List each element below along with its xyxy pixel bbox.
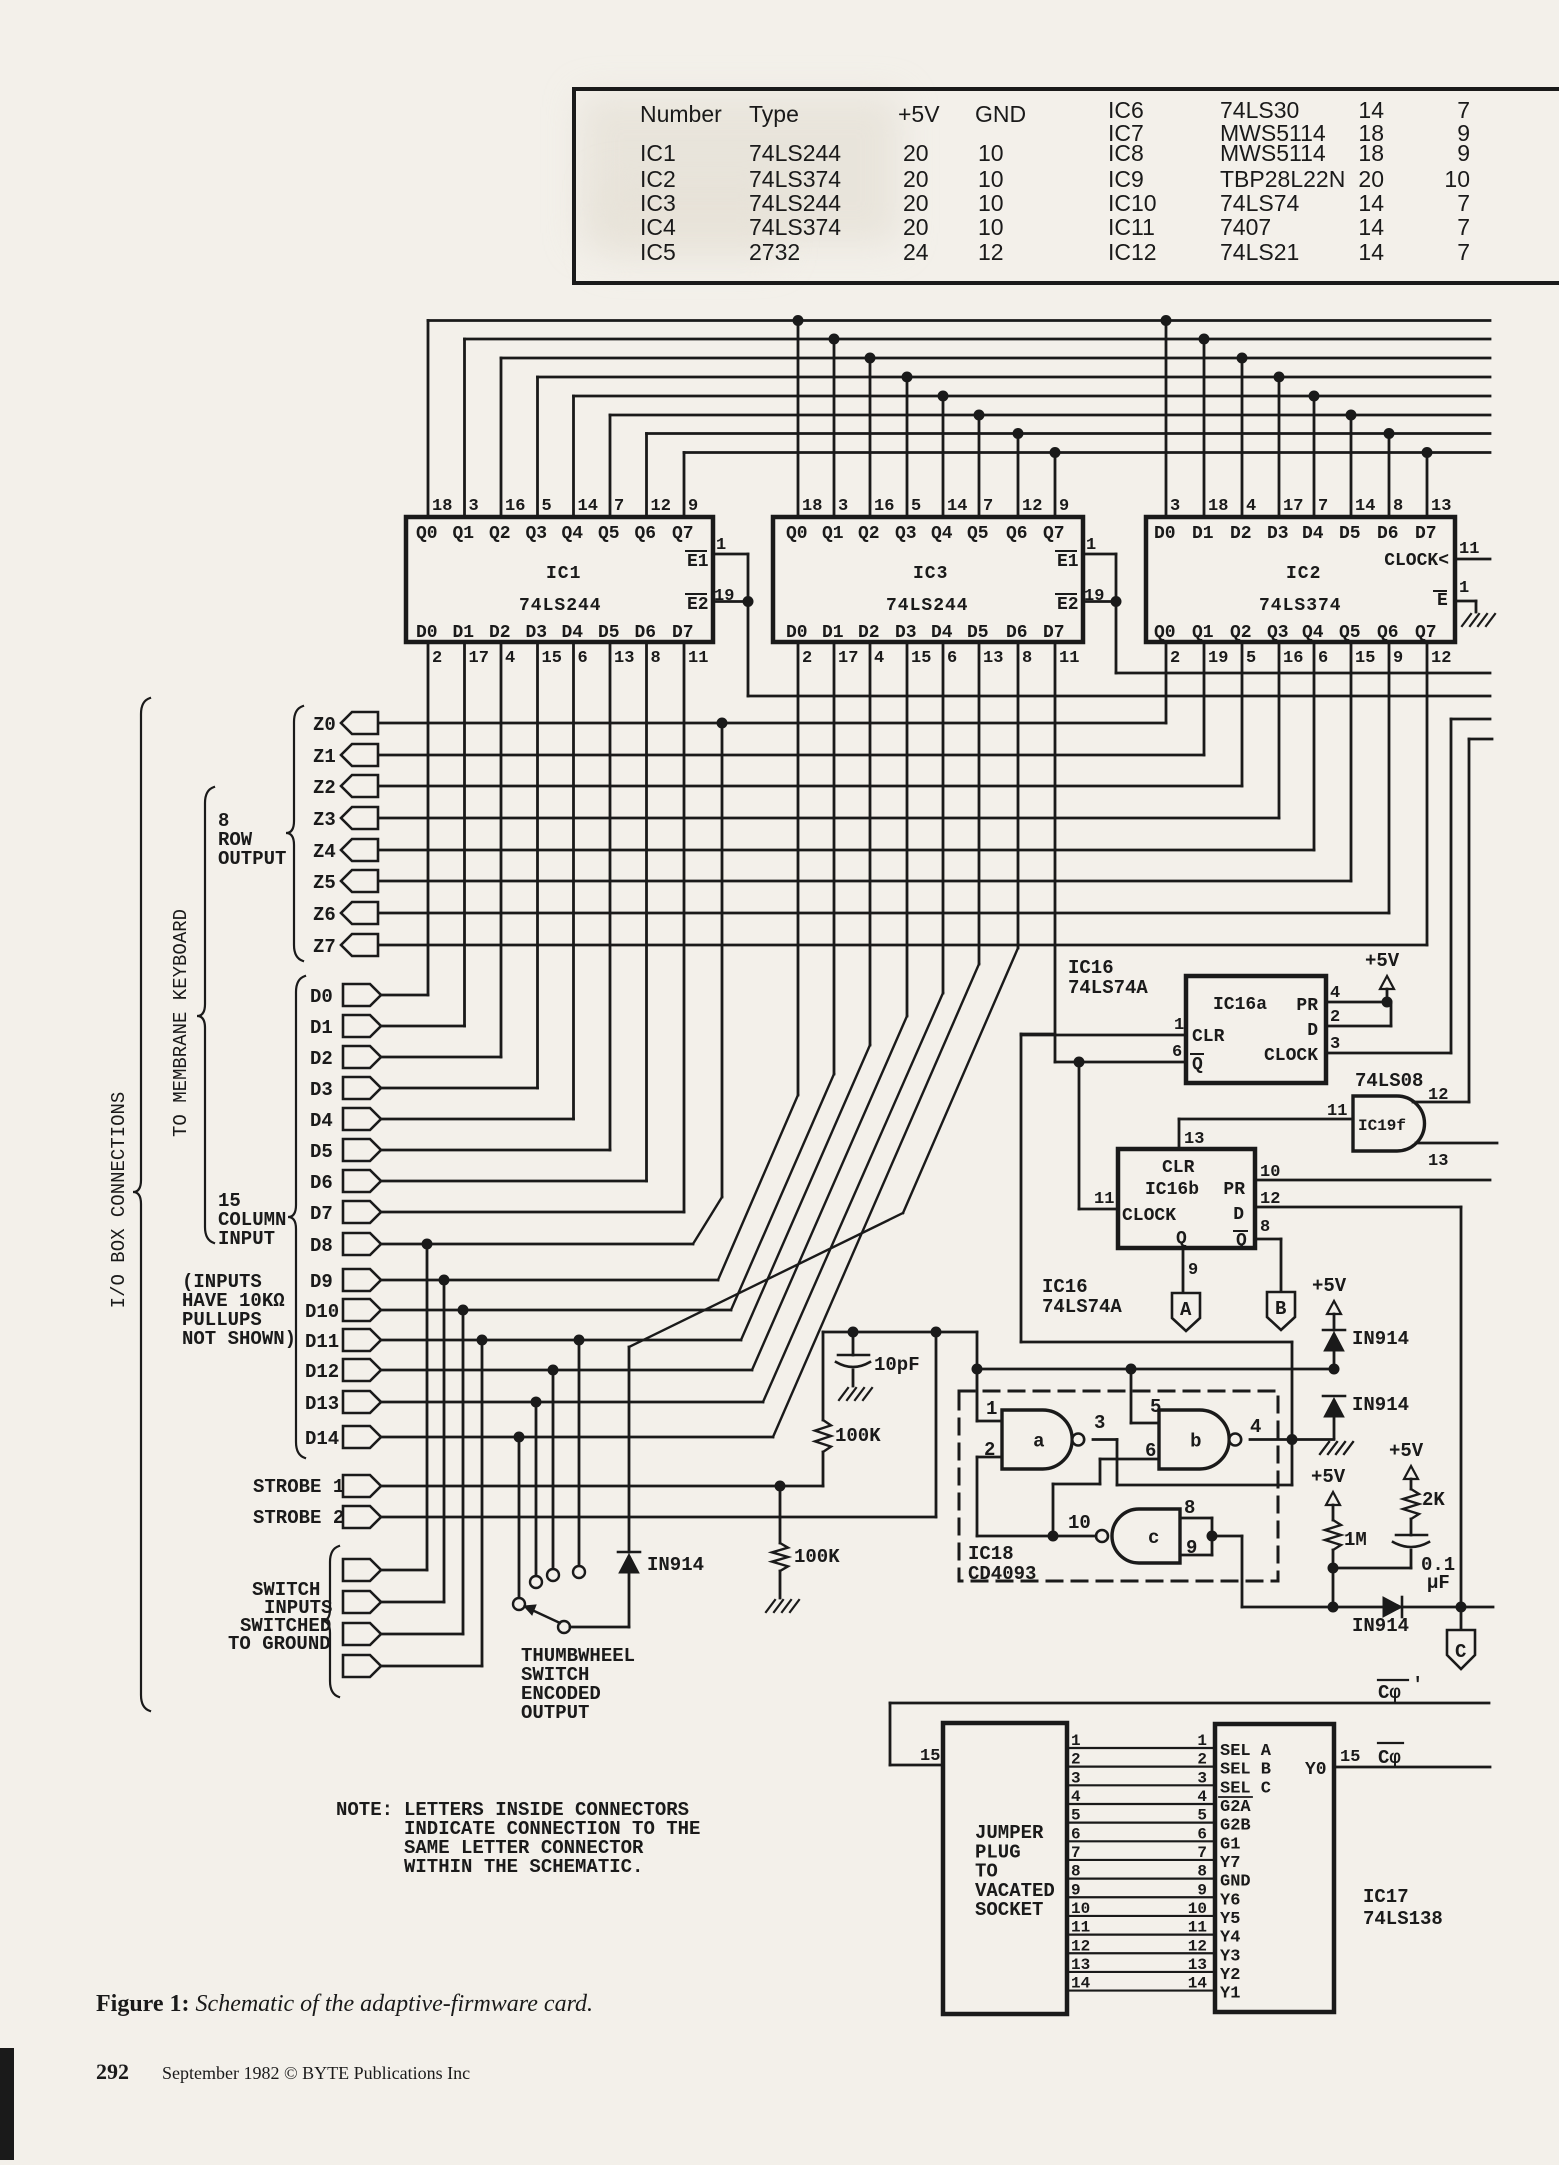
svg-text:Y0: Y0	[1305, 1760, 1327, 1780]
svg-text:D4: D4	[931, 623, 953, 643]
svg-text:D9: D9	[310, 1271, 333, 1293]
svg-text:2K: 2K	[1422, 1489, 1445, 1511]
svg-text:OUTPUT: OUTPUT	[218, 848, 286, 870]
svg-text:18: 18	[802, 497, 822, 516]
svg-text:8: 8	[1184, 1497, 1195, 1519]
svg-text:Y5: Y5	[1220, 1910, 1240, 1929]
svg-text:CLOCK: CLOCK	[1122, 1206, 1176, 1226]
svg-text:4: 4	[874, 649, 884, 668]
svg-text:5: 5	[911, 497, 921, 516]
svg-text:D2: D2	[489, 623, 511, 643]
svg-text:E: E	[1437, 591, 1448, 611]
svg-text:9: 9	[1071, 1881, 1081, 1899]
svg-text:2: 2	[1071, 1751, 1081, 1769]
svg-text:14: 14	[947, 497, 967, 516]
svg-text:10: 10	[978, 166, 1004, 192]
svg-text:SEL A: SEL A	[1220, 1742, 1272, 1761]
svg-text:5: 5	[1071, 1807, 1081, 1825]
svg-text:11: 11	[1459, 540, 1479, 559]
svg-text:G1: G1	[1220, 1835, 1240, 1854]
svg-text:E1: E1	[1057, 552, 1079, 572]
svg-text:D0: D0	[1154, 524, 1176, 544]
svg-text:IC2: IC2	[1286, 564, 1321, 584]
svg-text:100K: 100K	[835, 1425, 881, 1447]
svg-text:17: 17	[1283, 497, 1303, 516]
svg-text:D2: D2	[858, 623, 880, 643]
svg-text:Q3: Q3	[895, 524, 917, 544]
svg-text:1M: 1M	[1344, 1529, 1367, 1551]
svg-text:3: 3	[1170, 497, 1180, 516]
svg-text:IN914: IN914	[1352, 1328, 1409, 1350]
svg-text:Z0: Z0	[313, 714, 336, 736]
svg-text:14: 14	[1358, 214, 1384, 240]
svg-text:September 1982 © BYTE Publicat: September 1982 © BYTE Publications Inc	[162, 2063, 470, 2083]
svg-text:IC9: IC9	[1108, 166, 1144, 192]
svg-text:8: 8	[1022, 649, 1032, 668]
svg-text:12: 12	[1431, 649, 1451, 668]
svg-text:D4: D4	[310, 1110, 333, 1132]
svg-text:Z2: Z2	[313, 777, 336, 799]
svg-text:Y7: Y7	[1220, 1854, 1240, 1873]
svg-text:14: 14	[1071, 1975, 1091, 1993]
svg-text:Q3: Q3	[1267, 623, 1289, 643]
svg-text:1: 1	[1459, 579, 1469, 598]
svg-text:6: 6	[1071, 1825, 1081, 1843]
svg-text:D2: D2	[310, 1048, 333, 1070]
svg-text:9: 9	[1457, 140, 1470, 166]
svg-text:Z7: Z7	[313, 936, 336, 958]
svg-text:IC8: IC8	[1108, 140, 1144, 166]
svg-text:Z1: Z1	[313, 746, 336, 768]
svg-text:24: 24	[903, 239, 929, 265]
svg-text:Q4: Q4	[931, 524, 953, 544]
svg-text:5: 5	[1197, 1807, 1207, 1825]
svg-text:D14: D14	[305, 1428, 339, 1450]
svg-text:D13: D13	[305, 1393, 339, 1415]
svg-text:Number: Number	[640, 101, 722, 127]
svg-text:4: 4	[1330, 984, 1340, 1003]
svg-text:74LS74A: 74LS74A	[1042, 1296, 1122, 1318]
svg-text:6: 6	[578, 649, 588, 668]
svg-text:IC17: IC17	[1363, 1886, 1409, 1908]
svg-text:20: 20	[903, 214, 929, 240]
svg-text:D5: D5	[598, 623, 620, 643]
svg-text:14: 14	[1188, 1975, 1208, 1993]
svg-text:MWS5114: MWS5114	[1220, 140, 1326, 166]
svg-text:D4: D4	[562, 623, 584, 643]
svg-text:10pF: 10pF	[874, 1354, 920, 1376]
svg-text:IC11: IC11	[1108, 214, 1155, 240]
svg-text:PR: PR	[1296, 996, 1318, 1016]
svg-text:Q1: Q1	[822, 524, 844, 544]
svg-text:10: 10	[1444, 166, 1470, 192]
svg-text:11: 11	[1188, 1919, 1207, 1937]
svg-text:Q4: Q4	[1302, 623, 1324, 643]
svg-text:Cφ: Cφ	[1378, 1747, 1401, 1769]
svg-text:7: 7	[1318, 497, 1328, 516]
svg-text:13: 13	[614, 649, 634, 668]
svg-text:IC16b: IC16b	[1145, 1180, 1199, 1200]
svg-text:E2: E2	[1057, 595, 1079, 615]
svg-text:TO GROUND: TO GROUND	[228, 1633, 331, 1655]
svg-text:5: 5	[542, 497, 552, 516]
svg-text:Q3: Q3	[526, 524, 548, 544]
svg-text:14: 14	[1358, 190, 1384, 216]
svg-text:7: 7	[1197, 1844, 1207, 1862]
svg-text:Q0: Q0	[1154, 623, 1176, 643]
svg-text:2732: 2732	[749, 239, 800, 265]
svg-text:+5V: +5V	[1311, 1466, 1346, 1488]
svg-text:5: 5	[1246, 649, 1256, 668]
svg-text:74LS244: 74LS244	[749, 140, 841, 166]
svg-text:IC5: IC5	[640, 239, 676, 265]
svg-text:17: 17	[838, 649, 858, 668]
svg-text:+5V: +5V	[898, 101, 940, 127]
svg-text:c: c	[1148, 1527, 1159, 1549]
svg-text:7: 7	[614, 497, 624, 516]
svg-text:IC12: IC12	[1108, 239, 1157, 265]
svg-text:7: 7	[1457, 239, 1470, 265]
svg-text:INPUT: INPUT	[218, 1228, 275, 1250]
svg-text:17: 17	[469, 649, 489, 668]
svg-text:7: 7	[1457, 190, 1470, 216]
svg-text:Z5: Z5	[313, 872, 336, 894]
svg-text:8: 8	[1393, 497, 1403, 516]
svg-text:GND: GND	[975, 101, 1026, 127]
svg-text:7: 7	[1071, 1844, 1081, 1862]
svg-text:1: 1	[716, 536, 726, 555]
svg-text:STROBE 2: STROBE 2	[253, 1507, 344, 1529]
svg-text:E2: E2	[687, 595, 709, 615]
svg-text:Q: Q	[1192, 1055, 1203, 1075]
svg-text:15: 15	[911, 649, 931, 668]
svg-text:8: 8	[1071, 1863, 1081, 1881]
svg-text:4: 4	[1246, 497, 1256, 516]
svg-text:WITHIN THE SCHEMATIC.: WITHIN THE SCHEMATIC.	[404, 1856, 643, 1878]
svg-text:D: D	[1307, 1021, 1318, 1041]
svg-text:12: 12	[1428, 1086, 1448, 1105]
svg-text:4: 4	[1071, 1788, 1081, 1806]
svg-text:4: 4	[1197, 1788, 1207, 1806]
svg-text:7407: 7407	[1220, 214, 1271, 240]
svg-text:Q2: Q2	[1230, 623, 1252, 643]
svg-text:D3: D3	[526, 623, 548, 643]
svg-text:20: 20	[903, 166, 929, 192]
svg-text:D3: D3	[1267, 524, 1289, 544]
svg-text:18: 18	[432, 497, 452, 516]
svg-text:74LS244: 74LS244	[749, 190, 841, 216]
svg-text:3: 3	[1330, 1035, 1340, 1054]
svg-text:10: 10	[978, 214, 1004, 240]
svg-text:IN914: IN914	[647, 1554, 704, 1576]
svg-text:Z6: Z6	[313, 904, 336, 926]
svg-text:13: 13	[983, 649, 1003, 668]
svg-text:IC4: IC4	[640, 214, 676, 240]
svg-text:PR: PR	[1223, 1180, 1245, 1200]
svg-text:3: 3	[1094, 1412, 1105, 1434]
svg-text:15: 15	[1340, 1748, 1360, 1767]
svg-text:Figure 1: Schematic of the ada: Figure 1: Schematic of the adaptive-firm…	[96, 1991, 593, 2017]
svg-text:74LS74: 74LS74	[1220, 190, 1300, 216]
svg-text:I/O BOX CONNECTIONS: I/O BOX CONNECTIONS	[108, 1092, 130, 1309]
svg-text:STROBE 1: STROBE 1	[253, 1476, 344, 1498]
svg-text:D1: D1	[453, 623, 475, 643]
svg-text:D7: D7	[672, 623, 694, 643]
svg-text:Q0: Q0	[786, 524, 808, 544]
svg-text:74LS21: 74LS21	[1220, 239, 1299, 265]
svg-text:NOTE:: NOTE:	[336, 1799, 393, 1821]
svg-text:13: 13	[1071, 1956, 1090, 1974]
svg-text:IC1: IC1	[546, 564, 581, 584]
svg-text:Z3: Z3	[313, 809, 336, 831]
svg-text:12: 12	[1071, 1937, 1090, 1955]
svg-text:Y3: Y3	[1220, 1947, 1240, 1966]
svg-text:D6: D6	[1006, 623, 1028, 643]
svg-text:16: 16	[505, 497, 525, 516]
svg-text:16: 16	[874, 497, 894, 516]
svg-text:Q1: Q1	[453, 524, 475, 544]
svg-text:10: 10	[978, 190, 1004, 216]
svg-text:74LS138: 74LS138	[1363, 1908, 1443, 1930]
svg-text:15: 15	[920, 1747, 940, 1766]
svg-text:20: 20	[903, 190, 929, 216]
svg-text:IC16: IC16	[1068, 957, 1114, 979]
svg-text:74LS74A: 74LS74A	[1068, 977, 1148, 999]
svg-text:2: 2	[802, 649, 812, 668]
svg-text:19: 19	[1084, 587, 1104, 606]
svg-text:4: 4	[505, 649, 515, 668]
svg-text:E1: E1	[687, 552, 709, 572]
svg-text:18: 18	[1358, 140, 1384, 166]
svg-text:G2A: G2A	[1220, 1798, 1251, 1817]
svg-text:11: 11	[1071, 1919, 1090, 1937]
svg-text:Z4: Z4	[313, 841, 336, 863]
svg-text:Q6: Q6	[1006, 524, 1028, 544]
svg-text:74LS244: 74LS244	[886, 596, 969, 616]
svg-text:D1: D1	[1192, 524, 1214, 544]
svg-text:1: 1	[1197, 1732, 1207, 1750]
svg-text:D7: D7	[1415, 524, 1437, 544]
svg-text:13: 13	[1431, 497, 1451, 516]
svg-text:74LS08: 74LS08	[1355, 1070, 1423, 1092]
svg-text:IC10: IC10	[1108, 190, 1157, 216]
svg-text:+5V: +5V	[1312, 1275, 1347, 1297]
svg-text:CLOCK<: CLOCK<	[1384, 551, 1449, 571]
svg-text:13: 13	[1188, 1956, 1207, 1974]
svg-text:D6: D6	[1377, 524, 1399, 544]
svg-text:IC16a: IC16a	[1213, 995, 1267, 1015]
svg-text:GND: GND	[1220, 1873, 1251, 1892]
svg-text:11: 11	[1059, 649, 1079, 668]
svg-text:IC19f: IC19f	[1358, 1117, 1406, 1135]
svg-text:7: 7	[983, 497, 993, 516]
svg-text:Q6: Q6	[1377, 623, 1399, 643]
svg-text:74LS244: 74LS244	[519, 596, 602, 616]
svg-text:B: B	[1275, 1298, 1286, 1320]
svg-text:SOCKET: SOCKET	[975, 1899, 1043, 1921]
svg-text:IC3: IC3	[913, 564, 948, 584]
svg-text:D0: D0	[786, 623, 808, 643]
svg-text:SEL C: SEL C	[1220, 1779, 1271, 1798]
svg-text:3: 3	[1071, 1769, 1081, 1787]
svg-text:D10: D10	[305, 1301, 339, 1323]
svg-text:Y6: Y6	[1220, 1891, 1240, 1910]
svg-text:8: 8	[1197, 1863, 1207, 1881]
svg-text:Q2: Q2	[489, 524, 511, 544]
svg-text:': '	[1412, 1674, 1423, 1696]
svg-text:D2: D2	[1230, 524, 1252, 544]
svg-text:Cφ: Cφ	[1378, 1682, 1401, 1704]
svg-text:IC2: IC2	[640, 166, 676, 192]
svg-text:14: 14	[1358, 239, 1384, 265]
svg-text:TO MEMBRANE KEYBOARD: TO MEMBRANE KEYBOARD	[170, 909, 192, 1137]
svg-text:12: 12	[978, 239, 1004, 265]
svg-text:D0: D0	[310, 986, 333, 1008]
svg-text:D6: D6	[310, 1172, 333, 1194]
svg-text:12: 12	[651, 497, 671, 516]
svg-text:292: 292	[96, 2059, 129, 2084]
svg-text:+5V: +5V	[1365, 950, 1400, 972]
svg-text:2: 2	[1330, 1008, 1340, 1027]
svg-text:11: 11	[688, 649, 708, 668]
svg-text:12: 12	[1022, 497, 1042, 516]
svg-text:100K: 100K	[794, 1546, 840, 1568]
svg-text:8: 8	[1260, 1218, 1270, 1237]
svg-text:6: 6	[1145, 1440, 1156, 1462]
svg-text:Q7: Q7	[1043, 524, 1065, 544]
svg-text:1: 1	[1086, 536, 1096, 555]
svg-text:6: 6	[1197, 1825, 1207, 1843]
svg-text:74LS374: 74LS374	[749, 166, 841, 192]
svg-text:IC18: IC18	[968, 1543, 1014, 1565]
svg-text:D12: D12	[305, 1361, 339, 1383]
svg-text:15: 15	[542, 649, 562, 668]
svg-text:Y2: Y2	[1220, 1966, 1240, 1985]
svg-text:D11: D11	[305, 1331, 339, 1353]
svg-text:9: 9	[1197, 1881, 1207, 1899]
svg-text:D1: D1	[310, 1017, 333, 1039]
svg-text:G2B: G2B	[1220, 1817, 1251, 1836]
svg-text:15: 15	[1355, 649, 1375, 668]
svg-text:IC1: IC1	[640, 140, 676, 166]
svg-text:µF: µF	[1427, 1572, 1450, 1594]
svg-text:D5: D5	[310, 1141, 333, 1163]
svg-text:D1: D1	[822, 623, 844, 643]
svg-text:4: 4	[1250, 1416, 1261, 1438]
svg-text:CLR: CLR	[1162, 1158, 1195, 1178]
svg-text:CLOCK: CLOCK	[1264, 1046, 1318, 1066]
svg-text:Q4: Q4	[562, 524, 584, 544]
svg-text:SEL B: SEL B	[1220, 1761, 1271, 1780]
svg-text:3: 3	[1197, 1769, 1207, 1787]
svg-text:Q6: Q6	[635, 524, 657, 544]
svg-text:OUTPUT: OUTPUT	[521, 1702, 589, 1724]
svg-text:D7: D7	[310, 1203, 333, 1225]
svg-text:+5V: +5V	[1389, 1440, 1424, 1462]
svg-text:6: 6	[947, 649, 957, 668]
svg-text:Q1: Q1	[1192, 623, 1214, 643]
svg-text:2: 2	[1170, 649, 1180, 668]
svg-text:10: 10	[978, 140, 1004, 166]
svg-text:CLR: CLR	[1192, 1027, 1225, 1047]
svg-text:Type: Type	[749, 101, 799, 127]
svg-text:D5: D5	[967, 623, 989, 643]
svg-text:D7: D7	[1043, 623, 1065, 643]
svg-text:D4: D4	[1302, 524, 1324, 544]
svg-text:Q5: Q5	[1339, 623, 1361, 643]
svg-text:14: 14	[578, 497, 598, 516]
svg-text:D3: D3	[895, 623, 917, 643]
svg-text:1: 1	[1071, 1732, 1081, 1750]
svg-text:Q5: Q5	[967, 524, 989, 544]
svg-text:2: 2	[432, 649, 442, 668]
svg-text:IN914: IN914	[1352, 1394, 1409, 1416]
svg-text:3: 3	[838, 497, 848, 516]
svg-text:10: 10	[1188, 1900, 1207, 1918]
svg-text:13: 13	[1428, 1152, 1448, 1171]
svg-text:D: D	[1233, 1205, 1244, 1225]
svg-text:10: 10	[1071, 1900, 1090, 1918]
svg-text:6: 6	[1172, 1043, 1182, 1062]
svg-text:20: 20	[1358, 166, 1384, 192]
svg-text:C: C	[1455, 1641, 1466, 1663]
svg-text:Q7: Q7	[672, 524, 694, 544]
svg-text:Q: Q	[1236, 1231, 1247, 1251]
svg-text:IC3: IC3	[640, 190, 676, 216]
svg-text:14: 14	[1355, 497, 1375, 516]
svg-text:2: 2	[1197, 1751, 1207, 1769]
svg-text:D5: D5	[1339, 524, 1361, 544]
svg-text:5: 5	[1150, 1396, 1161, 1418]
svg-text:D8: D8	[310, 1235, 333, 1257]
svg-text:1: 1	[986, 1398, 997, 1420]
svg-text:11: 11	[1094, 1190, 1114, 1209]
svg-text:9: 9	[1188, 1261, 1198, 1280]
svg-text:19: 19	[714, 587, 734, 606]
svg-text:Q7: Q7	[1415, 623, 1437, 643]
svg-text:Y1: Y1	[1220, 1985, 1240, 2004]
svg-text:9: 9	[1059, 497, 1069, 516]
svg-text:IC16: IC16	[1042, 1276, 1088, 1298]
svg-text:Q2: Q2	[858, 524, 880, 544]
svg-text:b: b	[1190, 1431, 1201, 1453]
svg-text:18: 18	[1208, 497, 1228, 516]
svg-text:A: A	[1180, 1299, 1192, 1321]
svg-text:16: 16	[1283, 649, 1303, 668]
svg-text:10: 10	[1068, 1512, 1091, 1534]
svg-text:9: 9	[688, 497, 698, 516]
svg-text:1: 1	[1174, 1016, 1184, 1035]
svg-text:74LS374: 74LS374	[749, 214, 841, 240]
svg-text:13: 13	[1184, 1130, 1204, 1149]
svg-text:D3: D3	[310, 1079, 333, 1101]
svg-text:11: 11	[1327, 1102, 1347, 1121]
svg-text:3: 3	[469, 497, 479, 516]
svg-text:TBP28L22N: TBP28L22N	[1220, 166, 1345, 192]
svg-text:NOT SHOWN): NOT SHOWN)	[182, 1328, 296, 1350]
svg-text:19: 19	[1208, 649, 1228, 668]
svg-text:7: 7	[1457, 214, 1470, 240]
svg-text:D6: D6	[635, 623, 657, 643]
svg-text:D0: D0	[416, 623, 438, 643]
svg-text:8: 8	[651, 649, 661, 668]
svg-text:Y4: Y4	[1220, 1929, 1240, 1948]
svg-text:a: a	[1033, 1431, 1044, 1453]
svg-text:IN914: IN914	[1352, 1615, 1409, 1637]
svg-text:Q0: Q0	[416, 524, 438, 544]
svg-text:9: 9	[1393, 649, 1403, 668]
svg-text:20: 20	[903, 140, 929, 166]
